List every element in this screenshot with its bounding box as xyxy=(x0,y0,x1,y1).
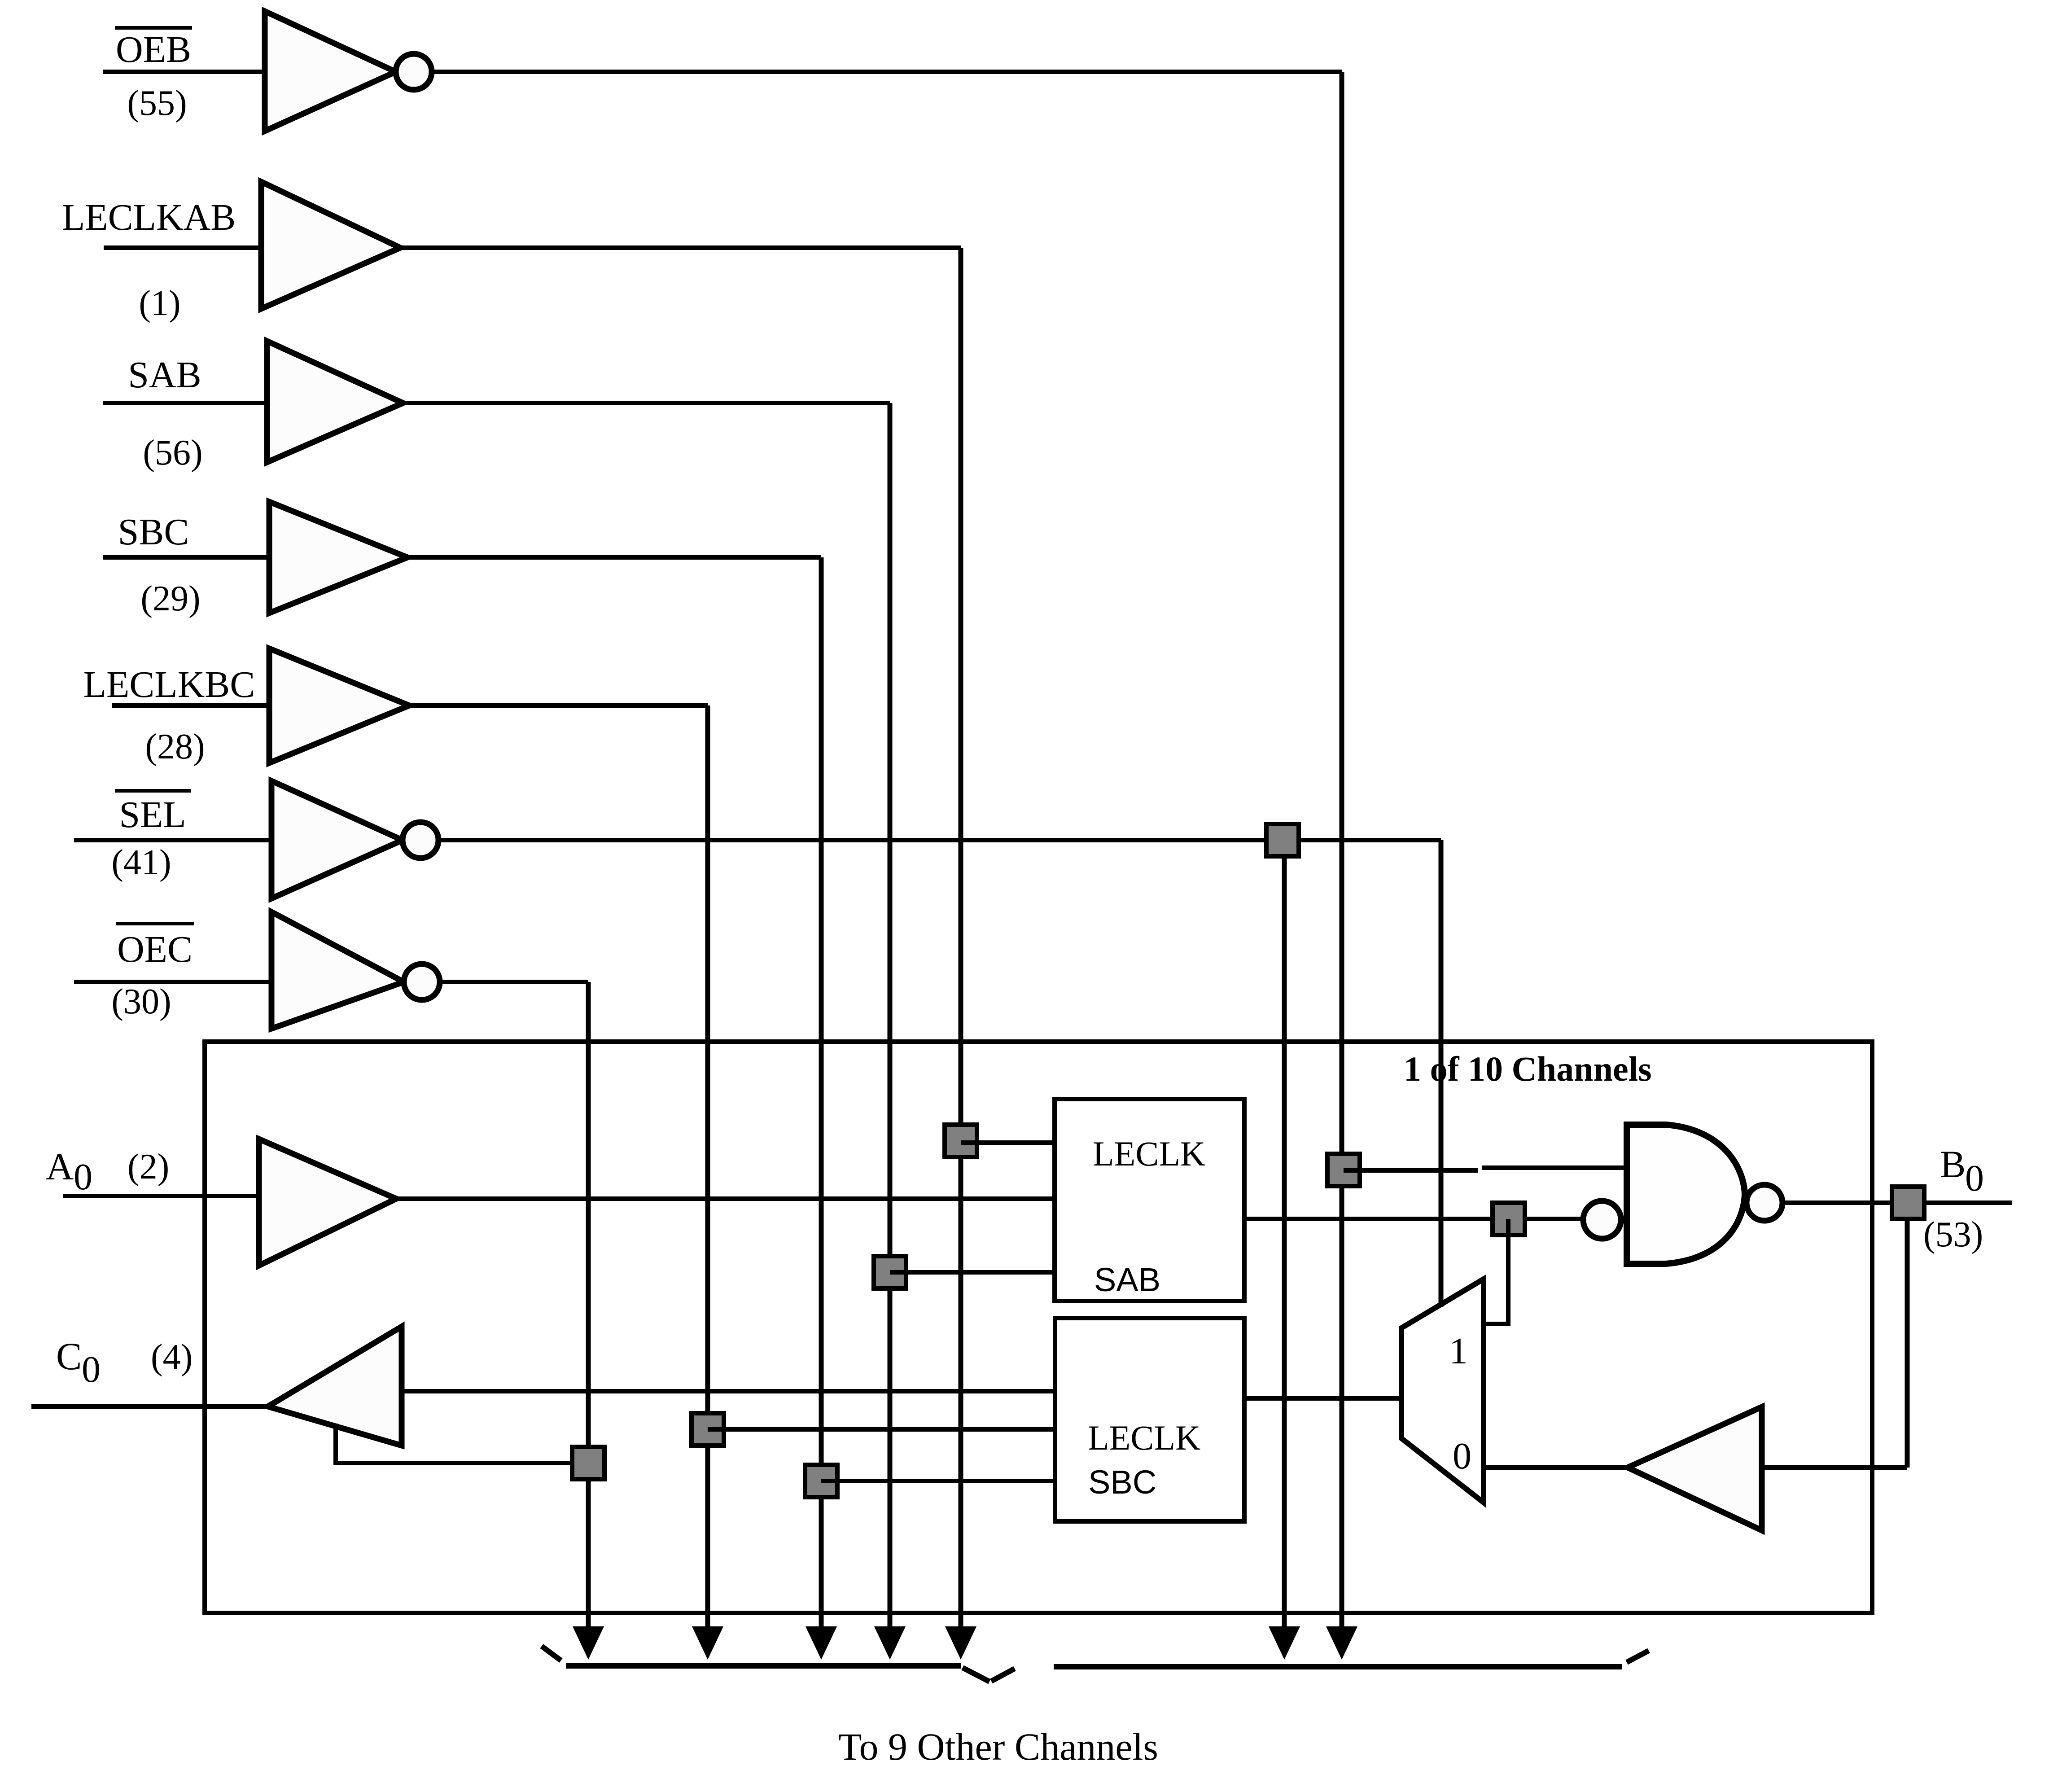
svg-text:0: 0 xyxy=(1965,1157,1984,1199)
wire SEL input xyxy=(74,838,271,842)
wire OEB input xyxy=(103,70,265,74)
junction square SBC to latch BC xyxy=(805,1465,837,1497)
svg-text:(2): (2) xyxy=(127,1147,169,1187)
svg-text:(28): (28) xyxy=(145,727,205,767)
buffer U7 OEC inverter xyxy=(271,912,440,1029)
svg-text:To 9 Other Channels: To 9 Other Channels xyxy=(838,1725,1158,1768)
junction square B0 feedback xyxy=(1892,1187,1924,1219)
arrow LECLKAB to other channels xyxy=(945,1626,976,1660)
svg-text:LECLKAB: LECLKAB xyxy=(62,197,236,238)
svg-text:A: A xyxy=(46,1145,74,1188)
wire mux input 0 from feedback buffer xyxy=(1484,1465,1628,1470)
NAND gate U13 output driver xyxy=(1627,1125,1782,1264)
bubble NAND lower input xyxy=(1583,1201,1621,1239)
junction square OEB to NAND xyxy=(1327,1154,1360,1186)
wire LECLKAB output horizontal xyxy=(400,245,961,250)
svg-text:OEB: OEB xyxy=(116,29,191,70)
wire SAB vertical drop xyxy=(888,403,893,1634)
wire OEC output horizontal xyxy=(440,980,588,984)
wire SBC output horizontal xyxy=(407,555,821,560)
svg-text:0: 0 xyxy=(82,1349,101,1390)
latch U11 LECLK SBC xyxy=(1055,1318,1244,1521)
wire B0 output line xyxy=(1782,1201,2012,1205)
svg-text:(4): (4) xyxy=(151,1337,193,1377)
arrow SEL to other channels xyxy=(1269,1626,1300,1660)
buffer U3 SAB xyxy=(267,341,403,462)
svg-text:LECLK: LECLK xyxy=(1093,1134,1205,1173)
wire SBC input xyxy=(103,555,269,560)
svg-text:SBC: SBC xyxy=(1088,1463,1156,1501)
arrow SAB to other channels xyxy=(874,1626,906,1660)
mux U12 2:1 select xyxy=(1401,1279,1484,1503)
latch U10 LECLK SAB xyxy=(1055,1099,1244,1301)
svg-text:1 of 10 Channels: 1 of 10 Channels xyxy=(1404,1049,1652,1088)
wire OEB square to NAND segment B xyxy=(1482,1165,1627,1170)
junction square SAB to latch AB xyxy=(874,1256,906,1288)
wire SEL select drop to mux xyxy=(1439,840,1444,1307)
label OEB with overline xyxy=(115,28,192,70)
junction square latch AB output to mux 1 xyxy=(1493,1203,1525,1235)
wire feedback buffer input xyxy=(1762,1465,1907,1470)
svg-text:(30): (30) xyxy=(111,982,171,1021)
svg-text:(41): (41) xyxy=(111,843,171,882)
wire C0 driver enable xyxy=(336,1424,588,1463)
bracket middle break rise xyxy=(991,1669,1015,1681)
wire LECLKAB vertical drop xyxy=(959,248,963,1634)
wire C0 output line to pad xyxy=(31,1404,268,1409)
wire SAB input xyxy=(103,401,267,405)
svg-text:C: C xyxy=(56,1335,82,1378)
label OEC with overline xyxy=(116,924,194,970)
buffer U14 feedback from B0 xyxy=(1628,1407,1762,1530)
wire A0 input xyxy=(63,1194,259,1198)
svg-text:SAB: SAB xyxy=(128,354,201,396)
arrow OEC to other channels xyxy=(573,1626,604,1660)
wire SBC square to latch BC xyxy=(821,1479,1056,1483)
svg-text:LECLK: LECLK xyxy=(1088,1418,1200,1457)
arrow OEB to other channels xyxy=(1326,1626,1357,1660)
wire LECLKBC input xyxy=(112,703,269,708)
buffer U4 SBC xyxy=(269,502,407,613)
arrow LECLKBC to other channels xyxy=(692,1626,723,1660)
svg-text:LECLKBC: LECLKBC xyxy=(83,664,255,705)
junction square OEC to C0 enable xyxy=(572,1447,604,1479)
wire OEB output horizontal xyxy=(432,70,1342,74)
junction square LECLKAB to latch AB xyxy=(945,1125,977,1157)
wire SAB square to latch AB xyxy=(890,1270,1055,1275)
label SEL with overline xyxy=(115,791,191,836)
svg-text:(55): (55) xyxy=(127,83,187,123)
wire SBC vertical drop xyxy=(819,557,824,1634)
svg-text:(53): (53) xyxy=(1923,1215,1983,1254)
wire OEC input xyxy=(74,980,271,984)
wire LECLKAB input xyxy=(104,245,261,250)
svg-text:SEL: SEL xyxy=(119,794,186,836)
bracket under arrows segment 1 xyxy=(566,1663,961,1669)
wire B0 feedback vertical xyxy=(1905,1219,1910,1468)
wire OEB vertical drop xyxy=(1340,72,1344,1634)
channel box (1 of 10 Channels) xyxy=(205,1042,1872,1613)
wire OEC vertical drop xyxy=(586,982,591,1634)
bracket right tick xyxy=(1627,1651,1649,1662)
svg-text:B: B xyxy=(1940,1143,1966,1186)
svg-text:(1): (1) xyxy=(139,284,180,323)
svg-text:0: 0 xyxy=(74,1156,92,1198)
wire OEB square to NAND segment A xyxy=(1344,1168,1478,1173)
svg-text:(56): (56) xyxy=(143,433,202,473)
svg-text:(29): (29) xyxy=(140,579,200,618)
bracket segment 2 xyxy=(1054,1664,1622,1669)
buffer U8 A0 input xyxy=(259,1139,396,1266)
wire latch AB output to NAND xyxy=(1244,1217,1584,1221)
wire LECLKBC square to latch BC xyxy=(708,1427,1056,1432)
bracket middle break xyxy=(963,1668,989,1682)
svg-text:OEC: OEC xyxy=(117,929,193,970)
svg-text:SAB: SAB xyxy=(1094,1261,1160,1298)
junction square LECLKBC to latch BC xyxy=(692,1413,724,1446)
buffer U1 OEB input inverter xyxy=(265,11,432,131)
svg-text:1: 1 xyxy=(1449,1330,1468,1372)
wire C0 driver input from latch BC xyxy=(402,1389,1056,1393)
wire mux input 1 connector xyxy=(1484,1219,1508,1324)
arrow SBC to other channels xyxy=(806,1626,837,1660)
bracket left tick xyxy=(542,1646,561,1661)
svg-text:0: 0 xyxy=(1453,1435,1471,1477)
label A0 xyxy=(46,1145,92,1198)
wire LECLKBC output horizontal xyxy=(409,703,708,708)
junction square SEL branch xyxy=(1266,824,1299,856)
buffer U2 LECLKAB xyxy=(261,182,400,309)
wire LECLKBC vertical drop xyxy=(705,705,710,1634)
buffer U9 C0 output driver xyxy=(268,1327,402,1446)
svg-text:SBC: SBC xyxy=(118,511,189,553)
wire SEL output horizontal xyxy=(438,838,1441,842)
wire latch BC input from mux output xyxy=(1244,1396,1401,1401)
wire LECLKAB square to latch AB xyxy=(961,1140,1055,1145)
label C0 xyxy=(56,1335,101,1390)
wire SAB output horizontal xyxy=(403,401,890,405)
buffer U6 SEL inverter xyxy=(271,781,438,898)
label B0 xyxy=(1940,1143,1984,1199)
wire SEL branch vertical drop xyxy=(1282,855,1287,1634)
wire A0 buffered output to latch AB xyxy=(396,1196,1055,1201)
buffer U5 LECLKBC xyxy=(269,648,409,763)
